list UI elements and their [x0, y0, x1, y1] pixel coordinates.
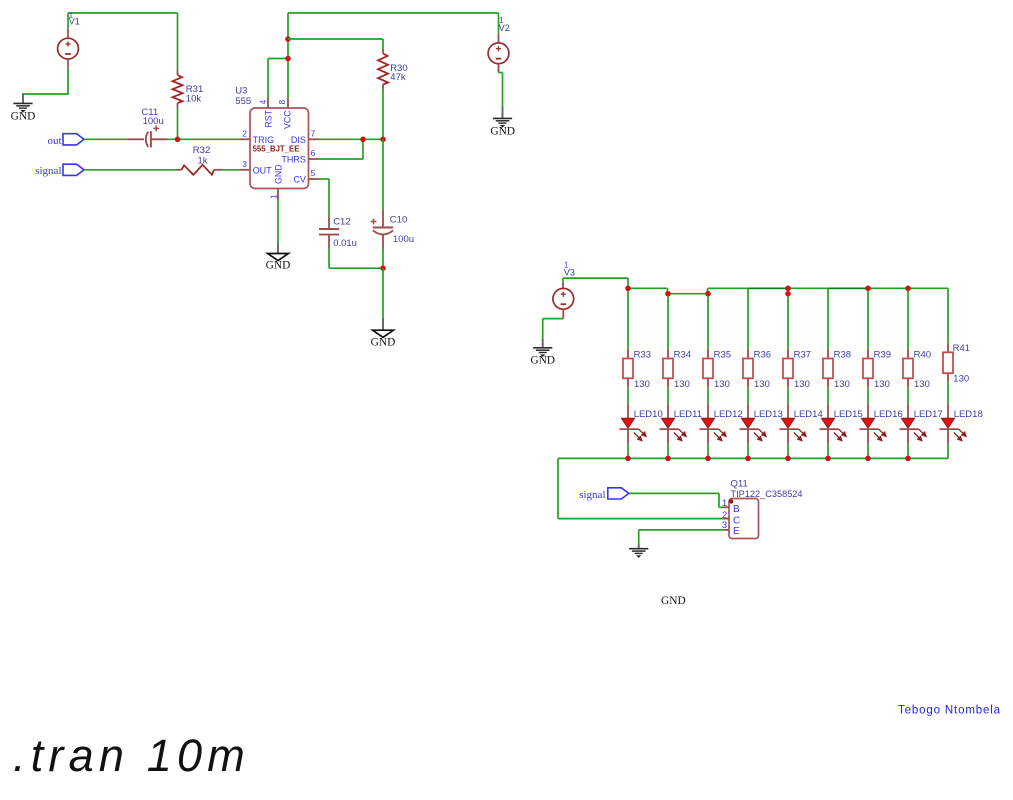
wire VCC rail vertical — [287, 13, 289, 98]
wire C10 bottom to gnd node — [382, 249, 384, 268]
svg-text:4: 4 — [258, 100, 268, 105]
wire V2 to ground — [499, 73, 503, 109]
svg-text:2: 2 — [242, 129, 247, 139]
capacitor C10 100u — [371, 210, 414, 249]
bottom bus wire — [558, 458, 948, 518]
svg-text:VCC: VCC — [283, 110, 293, 129]
LED LED16 — [860, 404, 903, 444]
wire LED11 to bottom bus — [667, 444, 669, 458]
wire R32 to OUT pin — [222, 169, 241, 171]
resistor R39 130 — [863, 350, 891, 390]
resistor R37 130 — [783, 350, 811, 390]
svg-text:OUT: OUT — [253, 165, 273, 175]
capacitor C12 0.01u — [319, 216, 357, 248]
wire R34 to LED11 — [667, 387, 669, 404]
svg-text:100u: 100u — [393, 234, 414, 245]
svg-text:LED12: LED12 — [714, 409, 743, 420]
svg-text:1: 1 — [722, 498, 727, 509]
svg-text:V3: V3 — [564, 268, 575, 278]
svg-text:R41: R41 — [953, 343, 970, 354]
wire signal to R32 — [84, 169, 177, 171]
op-amp U3 555 timer body — [235, 86, 308, 189]
wire C11 to TRIG — [168, 138, 241, 140]
wire out to C11 — [84, 138, 128, 140]
svg-text:R34: R34 — [674, 350, 691, 361]
LED LED14 — [780, 404, 823, 444]
junction top bus — [625, 286, 631, 292]
wire V3 top to bus — [563, 278, 628, 288]
wire V3 to ground — [543, 319, 564, 340]
junction bottom bus — [825, 456, 831, 462]
U3 pin 4 RST — [258, 98, 274, 128]
svg-text:E: E — [733, 526, 740, 537]
svg-text:LED18: LED18 — [954, 409, 983, 420]
junction node out/R31/TRIG — [175, 137, 181, 143]
Q11 pin 3 E — [722, 520, 740, 537]
svg-text:555: 555 — [235, 96, 251, 107]
svg-text:C: C — [733, 516, 740, 527]
junction top bus — [785, 291, 791, 297]
svg-text:GND: GND — [661, 595, 686, 607]
resistor R30 47k — [378, 39, 408, 139]
junction bottom bus — [745, 456, 751, 462]
wire R30 node down to C10 — [382, 139, 384, 210]
resistor R35 130 — [703, 350, 731, 390]
resistor R38 130 — [823, 350, 851, 390]
resistor R40 130 — [903, 350, 931, 390]
wire THRS up to DIS — [319, 139, 364, 159]
svg-text:10k: 10k — [186, 93, 202, 104]
svg-text:130: 130 — [874, 379, 890, 390]
junction top bus — [865, 286, 871, 292]
wire R39 to LED16 — [867, 387, 869, 404]
svg-text:TRIG: TRIG — [253, 135, 275, 145]
svg-text:R33: R33 — [634, 350, 651, 361]
wire LED17 to bottom bus — [907, 444, 909, 458]
svg-text:130: 130 — [794, 379, 810, 390]
wire Q11 emitter to ground — [639, 530, 724, 545]
junction top bus — [785, 286, 791, 292]
wire RST to VCC rail — [268, 59, 288, 99]
junction bottom bus — [665, 456, 671, 462]
svg-text:B: B — [733, 504, 740, 515]
svg-text:GND: GND — [11, 110, 36, 122]
junction THRS/DIS — [360, 137, 366, 143]
wire LED12 to bottom bus — [707, 444, 709, 458]
svg-text:5: 5 — [311, 168, 316, 178]
capacitor C11 100u — [128, 107, 168, 148]
wire LED15 to bottom bus — [827, 444, 829, 458]
svg-text:signal: signal — [579, 489, 605, 501]
voltage source V2 — [488, 16, 510, 73]
svg-text:GND: GND — [274, 164, 284, 184]
svg-text:C10: C10 — [390, 214, 407, 225]
wire bus to R40 — [907, 288, 909, 349]
junction bottom bus — [625, 456, 631, 462]
svg-text:V2: V2 — [499, 23, 510, 33]
wire CV to C12 — [319, 179, 330, 217]
Q11 pin 2 C — [722, 510, 740, 527]
LED LED18 — [940, 404, 983, 444]
junction bottom bus — [865, 456, 871, 462]
svg-text:U3: U3 — [235, 86, 247, 97]
junction bottom bus — [905, 456, 911, 462]
voltage source V3 — [553, 261, 575, 319]
resistor R34 130 — [663, 350, 691, 390]
wire R33 to LED10 — [627, 387, 629, 404]
svg-text:130: 130 — [714, 379, 730, 390]
wire bus to R34 — [667, 294, 669, 350]
net flag out — [47, 134, 84, 148]
Q11 pin 1 B — [722, 498, 740, 515]
svg-text:1k: 1k — [198, 155, 208, 166]
wire V1 top to R31 — [68, 13, 178, 29]
wire bus to R37 — [787, 288, 789, 349]
wire signal to Q11 base — [629, 493, 724, 507]
U3 pin 3 OUT — [240, 159, 272, 175]
resistor R32 1k — [177, 145, 222, 175]
wire LED18 to bottom bus — [947, 444, 949, 458]
svg-text:130: 130 — [953, 374, 969, 385]
LED LED15 — [820, 404, 863, 444]
voltage source V1 — [58, 11, 80, 69]
svg-text:Q11: Q11 — [731, 478, 748, 489]
svg-text:C12: C12 — [333, 216, 350, 227]
wire U3 pin1 to ground — [277, 201, 279, 245]
wire rail to R30 — [288, 38, 383, 40]
wire bus to R39 — [867, 288, 869, 349]
wire C12 bottom — [329, 248, 383, 268]
LED LED11 — [660, 404, 703, 444]
wire bus to R38 — [827, 288, 829, 349]
wire LED14 to bottom bus — [787, 444, 789, 458]
svg-text:130: 130 — [634, 379, 650, 390]
wire gnd node down — [382, 268, 384, 318]
svg-text:R39: R39 — [874, 350, 891, 361]
wire top rail to V2 — [288, 13, 499, 34]
U3 pin 2 TRIG — [240, 129, 274, 145]
ground V3 — [530, 339, 555, 366]
svg-text:LED10: LED10 — [634, 409, 663, 420]
resistor R41 130 — [943, 343, 970, 385]
svg-text:out: out — [47, 135, 61, 147]
overlapped bus segments (darker) — [748, 287, 868, 289]
junction top bus — [705, 291, 711, 297]
svg-text:LED17: LED17 — [914, 409, 943, 420]
wire R38 to LED15 — [827, 387, 829, 404]
wire DIS to R30 column — [319, 138, 384, 140]
svg-text:LED11: LED11 — [674, 409, 702, 420]
svg-text:0.01u: 0.01u — [333, 238, 357, 249]
wire bus to R36 — [747, 288, 749, 349]
junction top bus — [665, 291, 671, 297]
wire bus to R35 — [707, 294, 709, 350]
resistor R33 130 — [623, 350, 651, 390]
svg-text:V1: V1 — [69, 17, 80, 27]
wire LED16 to bottom bus — [867, 444, 869, 458]
svg-text:7: 7 — [311, 129, 316, 139]
transistor Q11 TIP122 body — [729, 478, 803, 538]
svg-text:R35: R35 — [714, 350, 731, 361]
svg-text:R38: R38 — [834, 350, 851, 361]
svg-text:555_BJT_EE: 555_BJT_EE — [253, 144, 300, 153]
resistor R36 130 — [743, 350, 771, 390]
U3 pin 1 GND — [269, 164, 284, 200]
svg-text:6: 6 — [311, 148, 316, 158]
wire bus to R41 — [947, 288, 949, 343]
svg-text:130: 130 — [834, 379, 850, 390]
svg-text:GND: GND — [530, 354, 555, 366]
wire bus to R33 — [627, 288, 629, 349]
svg-text:CV: CV — [293, 175, 306, 185]
junction top bus — [905, 286, 911, 292]
svg-text:130: 130 — [674, 379, 690, 390]
svg-text:THRS: THRS — [281, 155, 306, 165]
svg-text:LED15: LED15 — [834, 409, 863, 420]
wire R40 to LED17 — [907, 387, 909, 404]
svg-text:Tebogo Ntombela: Tebogo Ntombela — [898, 704, 1001, 716]
svg-text:DIS: DIS — [291, 135, 306, 145]
svg-text:GND: GND — [266, 260, 291, 272]
junction bottom bus — [785, 456, 791, 462]
svg-text:LED16: LED16 — [874, 409, 903, 420]
svg-text:8: 8 — [277, 100, 287, 105]
wire R35 to LED12 — [707, 387, 709, 404]
top bus wires — [628, 288, 948, 293]
svg-text:1: 1 — [269, 194, 279, 199]
U3 pin 8 VCC — [277, 98, 293, 129]
svg-text:RST: RST — [264, 109, 274, 127]
junction VCC / RST — [285, 56, 291, 62]
svg-text:130: 130 — [914, 379, 930, 390]
svg-text:LED14: LED14 — [794, 409, 823, 420]
wire LED13 to bottom bus — [747, 444, 749, 458]
U3 pin 6 THRS — [281, 148, 318, 164]
U3 pin 5 CV — [293, 168, 318, 184]
LED LED17 — [900, 404, 943, 444]
wire R37 to LED14 — [787, 387, 789, 404]
svg-text:GND: GND — [371, 337, 396, 349]
net flag signal (Q11) — [579, 488, 629, 501]
LED LED13 — [740, 404, 783, 444]
svg-text:TIP122_C358524: TIP122_C358524 — [731, 489, 803, 499]
wire R36 to LED13 — [747, 387, 749, 404]
resistor R31 10k — [173, 13, 204, 139]
svg-text:LED13: LED13 — [754, 409, 783, 420]
net flag signal (left) — [35, 164, 84, 177]
ground C10/C12 node — [371, 318, 396, 349]
wire R41 to LED18 — [947, 382, 949, 404]
svg-text:R37: R37 — [794, 350, 811, 361]
svg-text:3: 3 — [242, 159, 247, 169]
junction bottom bus — [705, 456, 711, 462]
junction C10/C12 gnd node — [380, 265, 386, 271]
svg-text:GND: GND — [490, 125, 515, 137]
ground V2 — [490, 107, 515, 137]
wire LED10 to bottom bus — [627, 444, 629, 458]
ground V1 — [11, 93, 36, 122]
wire V1 to ground — [23, 69, 69, 94]
svg-text:100u: 100u — [143, 116, 164, 127]
svg-text:130: 130 — [754, 379, 770, 390]
svg-text:signal: signal — [35, 165, 61, 177]
junction DIS/R30/C10 — [380, 137, 386, 143]
svg-text:R40: R40 — [914, 350, 931, 361]
LED LED12 — [700, 404, 743, 444]
svg-text:47k: 47k — [390, 72, 406, 83]
svg-text:.tran 10m: .tran 10m — [13, 730, 250, 781]
LED LED10 — [620, 404, 663, 444]
svg-text:R36: R36 — [754, 350, 771, 361]
junction VCC / V2 rail — [285, 36, 291, 42]
ground U3 pin1 — [266, 244, 291, 272]
U3 pin 7 DIS — [291, 129, 319, 145]
ground Q11 emitter — [629, 545, 648, 559]
